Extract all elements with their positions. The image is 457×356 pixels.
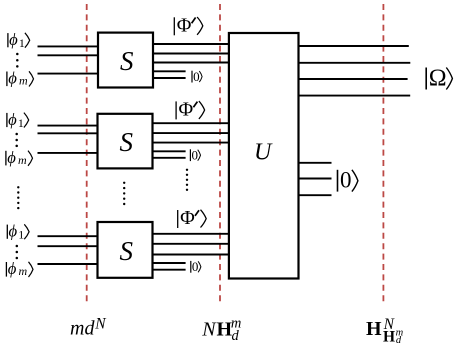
wire S2 to U 2 bbox=[153, 132, 230, 134]
box S1 bbox=[98, 33, 153, 88]
svg-text:Ω: Ω bbox=[429, 65, 447, 91]
wire U output 3 bbox=[299, 78, 408, 80]
dots between group3 labels bbox=[16, 245, 19, 260]
wire S3 to U 1 bbox=[153, 233, 230, 235]
wire S1 to U 1 bbox=[153, 43, 230, 45]
svg-text:Φ: Φ bbox=[180, 207, 195, 229]
wire S3 ancilla stub 2 bbox=[153, 269, 186, 271]
wire S2 to U 1 bbox=[153, 122, 230, 124]
svg-text:H: H bbox=[366, 318, 382, 340]
svg-text:ϕ: ϕ bbox=[9, 30, 18, 49]
wire group3 input 3 bbox=[38, 263, 99, 265]
wire S3 to U 3 bbox=[153, 254, 230, 256]
wire U ancilla stub 3 bbox=[299, 194, 332, 196]
bottom label H^N_{H_d^m} bbox=[366, 316, 404, 346]
wire S1 ancilla stub 2 bbox=[153, 77, 186, 79]
wire U output 4 bbox=[299, 95, 410, 97]
label zero ket S3 bbox=[191, 259, 201, 274]
label zero ket S2 bbox=[190, 148, 200, 163]
label phim ket group1 bbox=[7, 69, 34, 88]
label phi1 ket group3 bbox=[7, 222, 29, 242]
wire U ancilla stub 1 bbox=[299, 162, 332, 164]
label phi1 ket group2 bbox=[7, 110, 29, 130]
svg-text:0: 0 bbox=[192, 259, 199, 274]
box U bbox=[229, 33, 299, 279]
red dashed cut line B bbox=[219, 4, 221, 302]
svg-text:ϕ: ϕ bbox=[9, 222, 18, 241]
label zero ket U bbox=[338, 168, 358, 193]
bottom label N H_d^m bbox=[201, 316, 241, 345]
wire U output 2 bbox=[299, 62, 410, 64]
label phim ket group2 bbox=[6, 148, 33, 167]
svg-text:1: 1 bbox=[19, 36, 25, 50]
wire S1 to U 2 bbox=[153, 53, 230, 55]
wire U ancilla stub 2 bbox=[299, 178, 332, 180]
wire group3 input 2 bbox=[38, 245, 99, 247]
label Phi' ket group3 bbox=[178, 207, 207, 229]
wire S2 ancilla stub 1 bbox=[153, 150, 186, 152]
label Omega ket bbox=[426, 65, 452, 91]
svg-text:m: m bbox=[19, 74, 28, 88]
label Phi' ket group2 bbox=[176, 99, 205, 121]
svg-text:N: N bbox=[94, 315, 107, 332]
svg-text:d: d bbox=[396, 335, 402, 346]
svg-text:m: m bbox=[18, 153, 27, 167]
wire S1 ancilla stub 1 bbox=[153, 70, 186, 72]
wire S3 ancilla stub 1 bbox=[153, 262, 186, 264]
svg-text:H: H bbox=[383, 329, 395, 346]
svg-text:Φ: Φ bbox=[179, 99, 194, 121]
svg-text:ϕ: ϕ bbox=[7, 148, 16, 167]
wire U output 1 bbox=[299, 45, 409, 47]
svg-text:Φ: Φ bbox=[177, 14, 192, 36]
svg-text:d: d bbox=[232, 328, 240, 344]
svg-text:0: 0 bbox=[193, 69, 200, 84]
svg-text:0: 0 bbox=[340, 168, 352, 193]
wire group2 input 2 bbox=[38, 132, 99, 134]
svg-text:ϕ: ϕ bbox=[8, 110, 17, 129]
svg-text:ϕ: ϕ bbox=[8, 259, 17, 278]
svg-text:1: 1 bbox=[18, 116, 24, 130]
label phim ket group3 bbox=[6, 259, 33, 278]
svg-text:md: md bbox=[70, 318, 95, 340]
wire S3 to U 2 bbox=[153, 243, 230, 245]
wire S2 ancilla stub 2 bbox=[153, 157, 186, 159]
bottom label md^N bbox=[70, 315, 107, 339]
wire group2 input 1 bbox=[38, 125, 99, 127]
wire group3 input 1 bbox=[38, 235, 99, 237]
svg-text:1: 1 bbox=[18, 228, 24, 242]
dots between group2 labels bbox=[15, 133, 18, 147]
wire group1 input 1 bbox=[38, 45, 99, 47]
svg-text:0: 0 bbox=[192, 148, 199, 163]
wire S1 to U 3 bbox=[153, 62, 230, 64]
vertical dots column left bbox=[17, 186, 19, 209]
svg-text:ϕ: ϕ bbox=[8, 69, 17, 88]
vertical dots column right bbox=[186, 169, 188, 191]
label Phi' ket group1 bbox=[174, 14, 203, 36]
svg-text:N: N bbox=[201, 319, 217, 341]
box S3 bbox=[98, 222, 153, 278]
red dashed cut line A bbox=[86, 4, 88, 302]
svg-text:U: U bbox=[254, 140, 273, 166]
svg-text:m: m bbox=[19, 264, 28, 278]
dots between group1 labels bbox=[16, 53, 19, 68]
red dashed cut line C bbox=[382, 4, 384, 302]
box S2 bbox=[98, 114, 153, 169]
svg-text:S: S bbox=[120, 46, 134, 76]
label zero ket S1 bbox=[192, 69, 202, 84]
wire S2 to U 3 bbox=[153, 142, 230, 144]
vertical dots column middle bbox=[123, 182, 125, 206]
wire group1 input 3 bbox=[38, 73, 99, 75]
wire group1 input 2 bbox=[38, 54, 99, 56]
svg-text:S: S bbox=[120, 127, 134, 157]
label phi1 ket group1 bbox=[8, 30, 30, 50]
wire group2 input 3 bbox=[38, 152, 99, 154]
svg-text:S: S bbox=[120, 236, 134, 266]
